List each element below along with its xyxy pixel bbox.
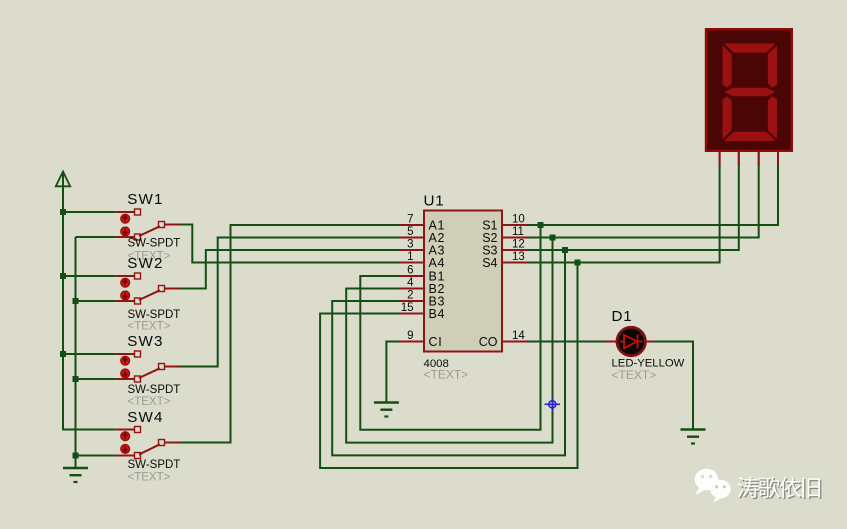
svg-text:D1: D1 xyxy=(612,308,633,325)
svg-text:<TEXT>: <TEXT> xyxy=(424,368,469,382)
IC U1 4008 body xyxy=(424,211,502,352)
wire second rail to ground xyxy=(75,237,77,468)
pin 1 (A4) stub xyxy=(400,262,425,264)
display pin 2 xyxy=(738,151,740,167)
svg-text:<TEXT>: <TEXT> xyxy=(128,321,171,333)
svg-text:SW4: SW4 xyxy=(127,409,164,426)
pin 11 (S2) stub xyxy=(502,237,527,239)
junction main bus / SW3 top xyxy=(60,351,66,357)
display pin 1 xyxy=(719,151,721,167)
pin 2 (B3) stub xyxy=(400,300,425,302)
wire SW1 pole to IC input xyxy=(180,225,400,263)
svg-text:11: 11 xyxy=(512,226,524,238)
svg-text:<TEXT>: <TEXT> xyxy=(612,368,657,382)
wire S1 feedback to B1 xyxy=(360,225,540,430)
svg-text:SW-SPDT: SW-SPDT xyxy=(128,238,181,250)
svg-text:<TEXT>: <TEXT> xyxy=(128,396,171,408)
junction S3 feedback xyxy=(562,247,568,253)
wire CI to ground xyxy=(386,342,399,404)
pin 5 (A2) stub xyxy=(400,237,425,239)
wire LED to ground xyxy=(654,342,694,430)
pin 9 (CI) stub xyxy=(400,341,425,343)
switch SW2 (SW-SPDT) xyxy=(63,273,180,304)
svg-text:A4: A4 xyxy=(429,256,446,270)
svg-text:13: 13 xyxy=(512,251,525,263)
wire SW3 pole to IC input xyxy=(180,238,400,367)
svg-text:10: 10 xyxy=(512,214,525,226)
watermark WeChat icon xyxy=(695,469,731,503)
wire S2 feedback to B2 xyxy=(346,238,552,443)
junction S1 feedback xyxy=(538,222,544,228)
pin 7 (A1) stub xyxy=(400,224,425,226)
svg-text:2: 2 xyxy=(407,290,413,302)
wire main +V bus xyxy=(63,186,116,430)
ground (CI) xyxy=(374,403,399,417)
wire SW4 pole to IC input xyxy=(180,225,400,443)
svg-text:9: 9 xyxy=(407,330,413,342)
LED D1 (LED-YELLOW) xyxy=(606,327,654,355)
pin 15 (B4) stub xyxy=(400,313,425,315)
svg-text:S4: S4 xyxy=(482,256,497,270)
svg-text:12: 12 xyxy=(512,239,525,251)
wire S4 feedback to B4 xyxy=(320,263,577,469)
pin 6 (B1) stub xyxy=(400,275,425,277)
svg-text:SW2: SW2 xyxy=(127,255,164,272)
wire S4 to display pin xyxy=(527,166,720,263)
pin 3 (A3) stub xyxy=(400,249,425,251)
wire S3 feedback to B3 xyxy=(332,250,565,455)
pin 14 (CO) stub xyxy=(502,341,527,343)
junction rail2 / SW2 bottom xyxy=(73,298,79,304)
svg-text:CO: CO xyxy=(479,335,498,349)
display pin 4 xyxy=(777,151,779,167)
wire S3 to display pin xyxy=(527,166,739,250)
svg-text:6: 6 xyxy=(407,265,413,277)
svg-text:15: 15 xyxy=(401,302,414,314)
svg-text:SW-SPDT: SW-SPDT xyxy=(128,309,181,321)
svg-text:<TEXT>: <TEXT> xyxy=(128,472,171,484)
svg-text:5: 5 xyxy=(407,226,413,238)
svg-text:4: 4 xyxy=(407,277,414,289)
origin marker (blue) xyxy=(545,397,561,413)
svg-text:7: 7 xyxy=(407,214,413,226)
wire CO to LED D1 xyxy=(527,341,606,343)
svg-text:14: 14 xyxy=(512,330,525,342)
ground (left rail) xyxy=(63,468,88,482)
switch SW1 (SW-SPDT) xyxy=(63,209,180,240)
power symbol +V arrow xyxy=(56,172,70,189)
svg-text:SW3: SW3 xyxy=(127,333,164,350)
wire S2 to display pin xyxy=(527,166,759,238)
svg-text:SW1: SW1 xyxy=(127,191,164,208)
junction rail2 / SW3 bottom xyxy=(73,376,79,382)
watermark text 涛歌依旧 xyxy=(737,477,821,500)
svg-text:3: 3 xyxy=(407,239,413,251)
svg-text:SW-SPDT: SW-SPDT xyxy=(128,459,181,471)
switch SW4 (SW-SPDT) xyxy=(76,427,180,459)
switch SW3 (SW-SPDT) xyxy=(63,351,180,382)
svg-text:U1: U1 xyxy=(424,193,445,210)
ground (LED) xyxy=(681,430,706,444)
pin 12 (S3) stub xyxy=(502,249,527,251)
pin 13 (S4) stub xyxy=(502,262,527,264)
junction S4 feedback xyxy=(575,260,581,266)
wire SW2 pole to IC input xyxy=(180,250,400,289)
wire S1 to display pin xyxy=(527,166,778,225)
svg-text:B4: B4 xyxy=(429,307,446,321)
7-segment digit segments xyxy=(723,44,778,142)
junction S2 feedback xyxy=(550,235,556,241)
svg-text:SW-SPDT: SW-SPDT xyxy=(128,384,181,396)
junction main bus / SW1 top xyxy=(60,209,66,215)
svg-text:CI: CI xyxy=(429,335,443,349)
junction rail2 / SW4 bottom xyxy=(73,453,79,459)
pin 4 (B2) stub xyxy=(400,288,425,290)
junction main bus / SW2 top xyxy=(60,273,66,279)
svg-text:1: 1 xyxy=(407,251,413,263)
display pin 3 xyxy=(758,151,760,167)
7-segment display body xyxy=(706,29,792,151)
pin 10 (S1) stub xyxy=(502,224,527,226)
